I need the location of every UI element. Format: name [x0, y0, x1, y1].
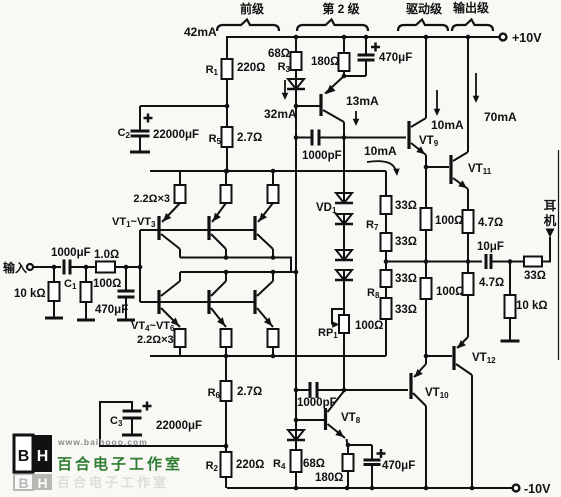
- svg-text:470μF: 470μF: [95, 304, 128, 316]
- wire -10V bottom rail: [227, 487, 512, 489]
- capacitor 470uF input: [95, 267, 135, 320]
- wire C3 branch: [100, 402, 226, 446]
- node bus1-VT2: [224, 255, 229, 260]
- node 470uF shunt: [124, 265, 129, 270]
- wire 100ohm-b to VT12 base node: [425, 299, 427, 356]
- wire VT8 base: [296, 419, 324, 421]
- wire VT10 emitter stub: [425, 356, 427, 364]
- wire R1 to node: [226, 79, 228, 127]
- wire VT4-6 base rail: [140, 301, 256, 303]
- wire VT7 collector to VT9 base: [344, 137, 406, 139]
- node trunk/input: [138, 265, 143, 270]
- svg-text:1000pF: 1000pF: [302, 150, 342, 162]
- label VT8: [341, 412, 361, 425]
- wire 33ohm to phone jack: [542, 237, 550, 262]
- svg-text:H: H: [37, 448, 49, 465]
- node VT9 collector/rail: [424, 35, 429, 40]
- node rail/2.2-3: [271, 169, 276, 174]
- svg-text:4.7Ω: 4.7Ω: [479, 277, 504, 289]
- resistor R3 68Ω: [268, 48, 302, 74]
- transistor VT4: [159, 272, 180, 327]
- svg-text:10mA: 10mA: [364, 144, 397, 158]
- wire 180ohm to bottom rail: [347, 471, 349, 488]
- label VT12: [472, 352, 496, 365]
- wire VT8 collector line to VT10 base: [344, 389, 408, 391]
- wire upper collector bus: [180, 258, 291, 273]
- wire R2 to bottom rail: [225, 477, 227, 488]
- node bus2-riser: [294, 270, 299, 275]
- svg-text:VT4~VT6: VT4~VT6: [131, 320, 175, 333]
- wire riser to VT8 base: [295, 390, 297, 420]
- label VT4~VT6: [131, 320, 175, 333]
- transistor VT1: [159, 203, 180, 258]
- svg-text:4.7Ω: 4.7Ω: [478, 217, 503, 229]
- capacitor C1 1000uF: [51, 247, 91, 291]
- scan edge artifact right: [558, 150, 560, 360]
- resistor R1: [206, 59, 266, 79]
- svg-text:VT1~VT3: VT1~VT3: [112, 216, 156, 229]
- svg-text:32mA: 32mA: [264, 107, 297, 121]
- node output/10k: [508, 259, 513, 264]
- node rail/2.2-5: [224, 354, 229, 359]
- svg-text:100Ω: 100Ω: [435, 215, 463, 227]
- node R5/emitter-rail: [225, 169, 230, 174]
- watermark www.baihooo.com: [57, 437, 148, 447]
- node VT7 emitter: [342, 74, 347, 79]
- label VD1: [316, 202, 337, 215]
- wire riser mid: [295, 138, 297, 273]
- node VT7 base: [294, 104, 299, 109]
- svg-text:220Ω: 220Ω: [237, 62, 265, 74]
- stage label 输出级 (output stage): [453, 0, 489, 15]
- terminal -10V: [513, 482, 551, 496]
- node rail/2.2-2: [224, 169, 229, 174]
- svg-text:180Ω: 180Ω: [311, 56, 339, 68]
- transistor VT10: [411, 364, 426, 488]
- wire VT1-3 base rail: [140, 229, 256, 231]
- node rail/2.2-6: [271, 354, 276, 359]
- label 10mA curved arrow: [364, 144, 400, 176]
- svg-text:68Ω: 68Ω: [303, 458, 325, 470]
- node VT9-emitter/VT11-base: [424, 165, 429, 170]
- node VT8 emitter: [346, 443, 351, 448]
- node RP1/VT8-collector: [342, 388, 347, 393]
- node bus2-VT6: [271, 270, 276, 275]
- svg-text:2.7Ω: 2.7Ω: [237, 132, 262, 144]
- svg-text:B: B: [18, 475, 28, 491]
- wire VT8 base to diode: [295, 420, 297, 430]
- svg-text:10μF: 10μF: [477, 241, 504, 253]
- stage label 第2级 (2nd stage): [322, 1, 359, 16]
- wire rail to 180ohm: [343, 37, 345, 53]
- wire diode to R4: [295, 441, 297, 450]
- wire 4.7ohm-b to VT12: [467, 295, 469, 337]
- svg-text:13mA: 13mA: [346, 94, 379, 108]
- node VT12-base/VT10-emitter: [424, 354, 429, 359]
- wire R6 to node: [225, 401, 227, 446]
- resistor 2.2ohm VT3: [268, 171, 279, 203]
- wire VD1 to RP1: [343, 281, 345, 315]
- node output/XF: [466, 259, 471, 264]
- svg-text:H: H: [37, 475, 47, 491]
- wire R3 to diode: [295, 70, 297, 79]
- resistor R5: [209, 127, 263, 147]
- wire 1.0ohm to trunk: [115, 266, 140, 268]
- svg-text:www.baihooo.com: www.baihooo.com: [57, 437, 148, 447]
- svg-text:68Ω: 68Ω: [268, 48, 290, 60]
- capacitor C2 22000uF: [118, 114, 199, 153]
- resistor R7 33Ω a: [381, 196, 418, 214]
- node C1/100ohm: [84, 265, 89, 270]
- wire VT11 base: [426, 166, 449, 168]
- svg-text:B: B: [18, 448, 30, 465]
- resistor R8 33Ω a: [381, 270, 418, 287]
- label 13mA + arrow: [346, 94, 379, 126]
- stage label 驱动级 (driver stage): [406, 1, 442, 16]
- resistor 4.7Ω b: [463, 262, 505, 296]
- resistor 100Ω shunt: [77, 267, 121, 320]
- label VT9: [419, 135, 439, 148]
- node rail/R3: [294, 35, 299, 40]
- wire lower collector bus: [180, 271, 298, 273]
- transistor VT6: [255, 272, 273, 327]
- resistor 2.2ohm VT6: [268, 329, 279, 356]
- resistor 4.7Ω a: [463, 210, 504, 233]
- node VT12 collector/bottom rail: [470, 486, 475, 491]
- svg-text:耳: 耳: [544, 199, 557, 213]
- node bus1-VT3: [271, 255, 276, 260]
- svg-text:33Ω: 33Ω: [395, 200, 417, 212]
- wire bottom emitter rail: [150, 355, 386, 357]
- svg-text:2.2Ω×3: 2.2Ω×3: [133, 193, 170, 205]
- stage label 前级 (pre-stage): [240, 1, 264, 16]
- wire top emitter rail: [150, 170, 386, 172]
- transistor VT12: [454, 337, 472, 488]
- svg-text:70mA: 70mA: [484, 110, 517, 124]
- wire C2 branch: [140, 106, 227, 131]
- label VT1~VT3: [112, 216, 156, 229]
- node VT10 collector/bottom rail: [424, 486, 429, 491]
- brace 驱动级: [398, 20, 448, 32]
- wire output line right: [491, 261, 510, 263]
- svg-text:33Ω: 33Ω: [395, 304, 417, 316]
- wire input: [33, 266, 61, 268]
- svg-text:470μF: 470μF: [379, 52, 412, 64]
- capacitor 1000pF upper: [296, 130, 344, 163]
- transistor VT2: [209, 203, 226, 258]
- svg-text:180Ω: 180Ω: [315, 472, 343, 484]
- svg-text:100Ω: 100Ω: [436, 286, 464, 298]
- wire output to R8: [385, 262, 387, 271]
- brace 第2级: [297, 20, 368, 32]
- node rail/470uF: [364, 35, 369, 40]
- diode VD1 d: [335, 270, 353, 280]
- svg-text:100Ω: 100Ω: [93, 278, 121, 290]
- resistor 100Ω driver b: [421, 262, 465, 300]
- wire output line left: [386, 261, 482, 263]
- node 470uF/bottom rail: [370, 486, 375, 491]
- diode VD upper: [287, 79, 305, 89]
- watermark 百合电子工作室: [57, 455, 183, 490]
- terminal +10V: [500, 31, 543, 45]
- ground 10kΩ: [501, 318, 520, 341]
- diode VD1 b: [335, 214, 353, 224]
- svg-text:100Ω: 100Ω: [355, 320, 383, 332]
- resistor R6: [208, 381, 263, 401]
- svg-text:2.2Ω×3: 2.2Ω×3: [137, 334, 174, 346]
- node output/XE: [424, 259, 429, 264]
- node rail/180ohm: [342, 35, 347, 40]
- resistor 2.2ohm VT1: [175, 171, 186, 203]
- wire riser lower: [295, 272, 297, 390]
- resistor 2.2ohm VT2: [221, 171, 232, 203]
- wire R4 to bottom rail: [295, 472, 297, 488]
- label 70mA + arrow: [473, 73, 517, 124]
- resistor R4 68Ω: [273, 450, 325, 472]
- wire R2 top: [225, 446, 227, 452]
- wire R5 to emitter rail: [226, 147, 228, 171]
- transistor VT8: [326, 391, 348, 445]
- transistor VT7: [321, 76, 344, 138]
- svg-text:33Ω: 33Ω: [524, 270, 546, 282]
- label 耳机 (headphone): [544, 199, 557, 228]
- wire to 33ohm: [510, 261, 524, 263]
- wire RP1 to lower node: [343, 333, 345, 390]
- resistor R7 33Ω b: [381, 233, 418, 251]
- node riser/1000pF-2: [294, 388, 299, 393]
- svg-text:输入: 输入: [3, 260, 27, 275]
- node bus2-VT5: [224, 270, 229, 275]
- svg-text:2.7Ω: 2.7Ω: [237, 386, 262, 398]
- svg-text:输出级: 输出级: [453, 0, 489, 15]
- node VT7 collector: [342, 135, 347, 140]
- resistor 2.2ohm VT5: [221, 329, 232, 356]
- node R6/R2/C3: [224, 444, 229, 449]
- svg-text:33Ω: 33Ω: [395, 273, 417, 285]
- capacitor 470uF lower: [364, 445, 416, 488]
- wire C1 to 1.0ohm: [70, 266, 96, 268]
- wire R7 mid: [366, 214, 386, 233]
- wire VD1 top: [343, 138, 345, 194]
- wire R8 to bottom emitter rail: [385, 319, 387, 356]
- svg-text:第 2 级: 第 2 级: [322, 1, 359, 16]
- node R1/R5/C2: [225, 104, 230, 109]
- svg-text:220Ω: 220Ω: [236, 459, 264, 471]
- wire VT7 base: [296, 105, 321, 107]
- wire diode to base node: [295, 90, 297, 106]
- svg-text:机: 机: [544, 213, 557, 228]
- wire 180ohm to emitter node: [343, 71, 345, 76]
- resistor 180Ω upper: [311, 53, 350, 71]
- svg-text:百合电子工作室: 百合电子工作室: [57, 475, 169, 490]
- wire R7 to output node: [385, 251, 387, 262]
- svg-text:前级: 前级: [240, 1, 264, 16]
- transistor VT5: [209, 272, 226, 327]
- wire VT12 base: [426, 355, 452, 357]
- resistor 1.0Ω: [94, 249, 119, 273]
- svg-text:10 kΩ: 10 kΩ: [14, 288, 46, 300]
- wire 100ohm-a to output: [425, 230, 427, 262]
- svg-text:10mA: 10mA: [431, 118, 464, 132]
- label 42mA: [184, 25, 217, 39]
- svg-text:-10V: -10V: [524, 482, 551, 496]
- wire rail to R3: [295, 37, 297, 52]
- wire riser upper: [295, 106, 297, 138]
- transistor VT9: [409, 37, 426, 167]
- node VT11 collector/rail: [466, 35, 471, 40]
- arrow 32mA: [264, 80, 297, 121]
- transistor VT3: [255, 203, 273, 258]
- wire 4.7ohm-a to output: [467, 233, 469, 262]
- wire R8 mid: [367, 287, 386, 300]
- resistor 33Ω output: [524, 257, 546, 283]
- label 输入 (input): [3, 260, 27, 275]
- svg-text:+10V: +10V: [512, 31, 542, 45]
- node VT8 base: [294, 418, 299, 423]
- potentiometer RP1 100Ω: [318, 309, 383, 340]
- wire R1 top from rail: [226, 37, 228, 59]
- capacitor C3 22000uF: [110, 402, 202, 436]
- wire VT8 emitter node: [347, 444, 372, 446]
- terminal input: [27, 264, 33, 270]
- label VT11: [468, 163, 492, 176]
- label 2.2Ωx3 top: [133, 193, 170, 205]
- wire +10V top rail: [227, 36, 499, 38]
- resistor 10kΩ input: [14, 267, 63, 318]
- diode VD1 a: [335, 193, 353, 203]
- wire rail to R6: [225, 356, 227, 381]
- brace 前级: [217, 20, 279, 32]
- resistor 10kΩ output: [505, 262, 548, 319]
- wire emitter rail corner to R7: [385, 171, 387, 196]
- capacitor 1000pF lower: [296, 382, 344, 409]
- wire input trunk: [139, 230, 141, 302]
- capacitor 10uF output: [477, 241, 504, 269]
- resistor 2.2ohm VT4: [175, 329, 186, 356]
- svg-text:驱动级: 驱动级: [406, 1, 442, 16]
- diode VD1 c: [335, 250, 353, 260]
- svg-text:百合电子工作室: 百合电子工作室: [57, 455, 183, 473]
- resistor R8 33Ω b: [381, 298, 418, 319]
- diode VD lower: [287, 430, 305, 440]
- svg-text:1.0Ω: 1.0Ω: [94, 249, 119, 261]
- svg-text:10 kΩ: 10 kΩ: [516, 300, 548, 312]
- watermark BH logo: [14, 435, 52, 491]
- capacitor 470uF upper: [344, 37, 412, 76]
- svg-text:1000μF: 1000μF: [51, 247, 91, 259]
- svg-text:22000μF: 22000μF: [153, 129, 199, 141]
- transistor VT11: [451, 37, 468, 210]
- svg-text:470μF: 470μF: [382, 460, 415, 472]
- node R4/bottom rail: [294, 486, 299, 491]
- node riser/1000pF: [294, 135, 299, 140]
- label VT10: [425, 387, 449, 400]
- resistor R2: [206, 452, 265, 477]
- resistor 180Ω lower: [315, 445, 354, 484]
- terminal headphone: [546, 229, 555, 238]
- svg-text:33Ω: 33Ω: [395, 236, 417, 248]
- node 180ohm/bottom rail: [345, 486, 350, 491]
- label 2.2Ωx3 bottom: [137, 334, 174, 346]
- label 10mA + arrow driver: [431, 90, 464, 132]
- node input/10k: [52, 265, 57, 270]
- brace 输出级: [452, 20, 493, 32]
- resistor 100Ω driver a: [421, 167, 464, 230]
- svg-text:42mA: 42mA: [184, 25, 217, 39]
- svg-text:22000μF: 22000μF: [156, 420, 202, 432]
- wire VD1 mid: [343, 225, 345, 250]
- node R7/output: [384, 259, 389, 264]
